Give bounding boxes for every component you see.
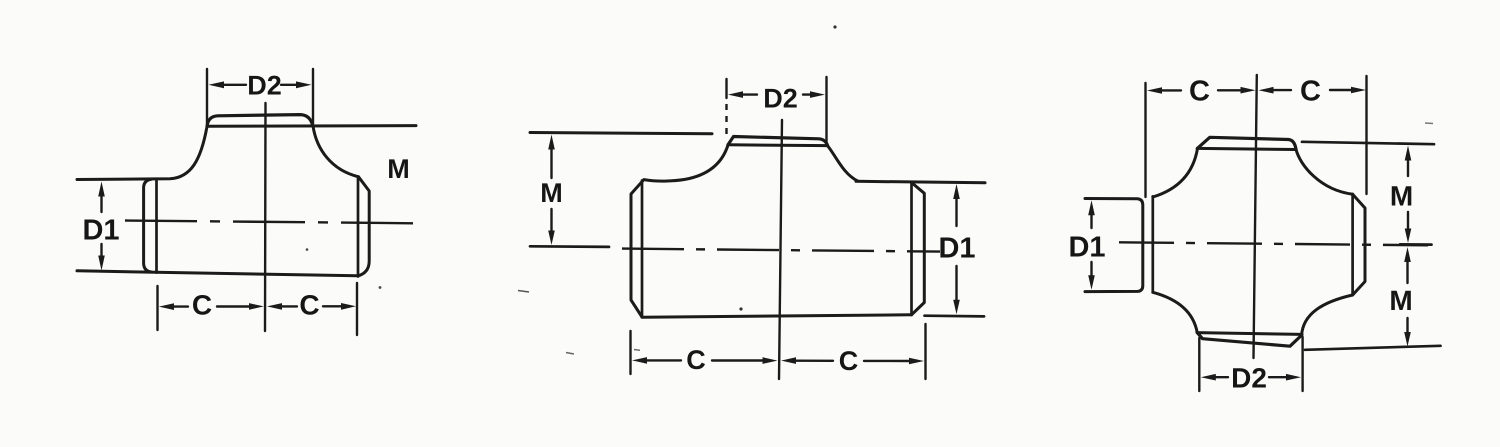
tee1 left end outer face — [144, 179, 152, 272]
scan speck top middle — [833, 25, 836, 28]
dimension M upper line and arrows (cross) — [1407, 158, 1409, 231]
cross top-right shoulder — [1296, 149, 1353, 194]
dimension D2 line and arrows (tee1) — [222, 84, 297, 86]
cross vertical centerline — [1254, 75, 1257, 358]
dimension D2 extension lines (tee1) — [207, 69, 313, 125]
tee2 centerline-level reference line for M — [530, 245, 609, 248]
tee2 vertical centerline — [779, 120, 782, 379]
tee2 branch-end level reference line — [530, 133, 712, 134]
scan dash right of cross M line — [1425, 122, 1433, 125]
svg-text:C: C — [299, 289, 319, 320]
svg-text:M: M — [387, 154, 410, 184]
cross bottom-branch level line for M lower — [1305, 346, 1441, 350]
dimension M line and arrows (tee2) — [550, 147, 552, 233]
tee1 horizontal centerline — [125, 221, 416, 224]
cross left face with D1 extension lines — [1085, 199, 1143, 292]
dimension D2 line and arrows (cross) — [1214, 376, 1288, 378]
dimension D1 line and arrows (cross) — [1090, 213, 1092, 278]
tee2 left end inner line — [641, 181, 644, 318]
cross bottom branch end face — [1197, 333, 1302, 347]
tee1 right end bevel line — [357, 177, 360, 277]
svg-text:D2: D2 — [247, 71, 282, 101]
dimension D2 extension lines (tee2) — [725, 79, 727, 98]
svg-text:M: M — [1389, 285, 1412, 316]
cross horizontal centerline — [1119, 242, 1428, 245]
cross left inner bevel line — [1151, 196, 1154, 292]
svg-text:M: M — [540, 178, 563, 208]
tee2 horizontal centerline — [622, 249, 940, 252]
cross branch-top level line for M upper — [1302, 142, 1434, 144]
svg-text:C: C — [1189, 76, 1210, 108]
cross top branch end face — [1197, 137, 1296, 149]
tee1 branch face bottom line continuing right — [207, 124, 416, 128]
tee2 right end inner line — [910, 183, 913, 315]
tee2 branch face bottom edge — [728, 143, 828, 147]
svg-text:M: M — [1390, 181, 1413, 212]
dimension M lower line and arrows (cross) — [1406, 260, 1408, 334]
cross right inner line — [1351, 194, 1354, 295]
cross bottom-left shoulder — [1153, 292, 1197, 332]
tee2 body bottom line — [642, 315, 912, 317]
svg-text:D2: D2 — [763, 84, 798, 114]
cross bottom branch face top edge — [1197, 333, 1302, 335]
tee1 left end bevel line — [155, 179, 158, 273]
svg-text:C: C — [686, 345, 706, 375]
dimension C line right segment (tee2) — [796, 360, 910, 363]
tee1 vertical centerline — [264, 103, 267, 331]
dimension C extension lines (tee1) — [158, 283, 358, 335]
svg-text:D1: D1 — [938, 233, 975, 265]
tee1 run top line with left shoulder — [77, 127, 207, 180]
tee2 body top right with D1 extension — [856, 181, 985, 183]
dimension C extension lines (cross) — [1146, 76, 1367, 197]
tee2 right shoulder — [828, 146, 858, 181]
tee1 run bottom line — [77, 271, 357, 276]
tee1 right shoulder — [313, 126, 359, 177]
scan speck inside tee1 body — [306, 248, 309, 251]
tee2 right end bevel outline — [912, 183, 925, 315]
dimension D1 line and arrows (tee1) — [100, 193, 102, 260]
tee2 body top left and left shoulder — [644, 145, 728, 181]
dimension C line left segment (cross) — [1160, 89, 1243, 91]
dimension D1 line and arrows (tee2) — [955, 197, 957, 303]
dimension C extension lines (tee2) — [631, 324, 926, 379]
dimension D2 line and arrows (tee2) — [741, 93, 813, 95]
cross top-left shoulder — [1153, 149, 1198, 198]
dimension C line right segment (tee1) — [280, 305, 343, 308]
svg-text:D1: D1 — [1068, 232, 1105, 264]
svg-text:D2: D2 — [1231, 363, 1267, 394]
cross top branch face bottom edge — [1197, 148, 1295, 149]
dimension C line left segment (tee2) — [645, 359, 763, 362]
scan speck below tee1 — [379, 286, 382, 289]
dimension C line left segment (tee1) — [172, 305, 251, 308]
scan specks below tee2 left corner — [566, 350, 640, 355]
tee2 bottom D1 extension line — [925, 314, 985, 317]
scan dash left of tee2 — [518, 291, 529, 293]
tee1 branch end face top edge — [207, 115, 312, 126]
svg-text:C: C — [192, 290, 212, 321]
svg-text:C: C — [839, 346, 859, 376]
cross centerline-level line for M dims — [1400, 243, 1432, 246]
tee2 left end bevel outline — [631, 180, 644, 317]
svg-text:C: C — [1300, 75, 1321, 107]
tee1 right end outer face — [358, 177, 369, 276]
tee2 branch end face — [728, 137, 828, 146]
dimension D2 extension lines (cross) — [1199, 337, 1302, 391]
dimension C line right segment (cross) — [1272, 89, 1354, 91]
cross bottom-right shoulder — [1302, 295, 1353, 335]
svg-text:D1: D1 — [82, 215, 119, 247]
cross right face bevel outline — [1353, 194, 1365, 295]
scan speck inside tee2 body — [739, 307, 742, 310]
